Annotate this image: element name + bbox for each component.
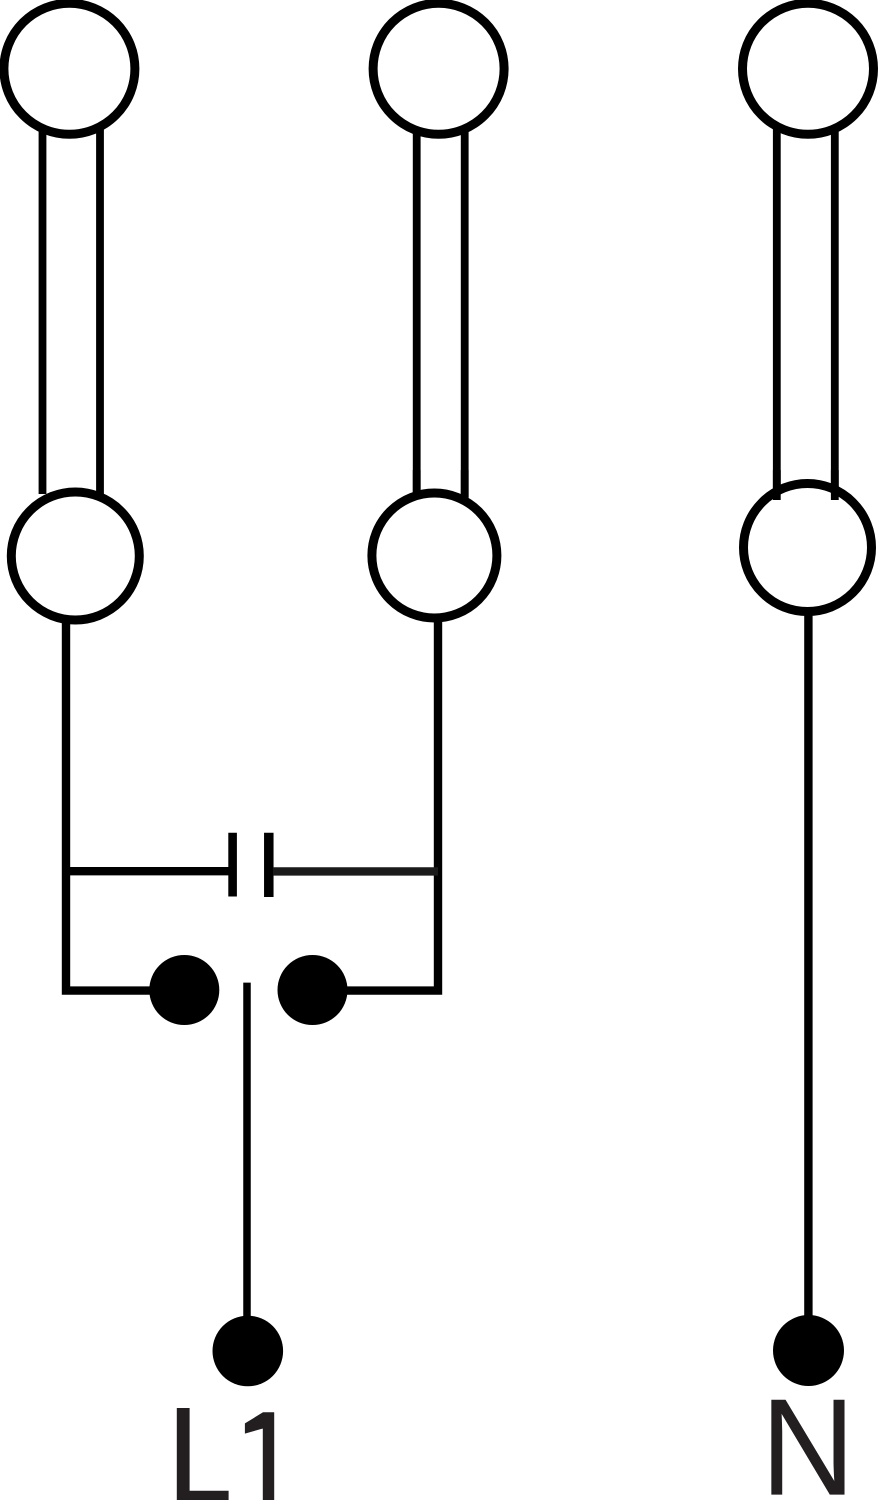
lamp E2 top terminal circle [373, 3, 504, 134]
lamp E2 filament stub right inside bottom circle [461, 470, 469, 499]
capacitor C1 left plate [228, 833, 237, 897]
capacitor C1 right plate [264, 833, 274, 897]
lamp E1 filament line left [39, 129, 47, 494]
wire N: from E3 bottom circle down to terminal N [804, 608, 812, 1351]
lamp E3 filament line right [831, 129, 839, 488]
wire from E1 bottom circle down and corner to left switch contact [66, 616, 184, 991]
lamp E1 filament line right [96, 129, 104, 494]
lamp E2 filament stub left inside bottom circle [413, 470, 421, 498]
svg-text:N: N [761, 1369, 856, 1500]
label L1 (drawn as paths: L stem+foot, 1 flag+stem) [177, 1408, 229, 1500]
switch S1 right contact dot [278, 955, 348, 1025]
capacitor C1 left lead wire [66, 867, 229, 875]
lamp E2 filament line right [461, 129, 469, 497]
lamp E3 filament stub right inside bottom circle [831, 470, 839, 500]
capacitor C1 right lead wire [273, 867, 438, 875]
lamp E3 filament line left [773, 129, 781, 488]
lamp E3 bottom terminal circle [744, 484, 872, 612]
terminal dot L1 [213, 1316, 284, 1387]
lamp E3 filament stub left inside bottom circle [773, 470, 781, 500]
lamp E3 top terminal circle [743, 3, 874, 134]
terminal dot N [773, 1315, 844, 1386]
lamp E2 bottom terminal circle [372, 493, 497, 618]
lamp E1 top terminal circle [4, 3, 135, 134]
lamp E2 filament line left [413, 129, 421, 497]
switch S1 actuator wire down to terminal L1 [243, 983, 251, 1351]
wire from E2 bottom circle down and corner to right switch contact [313, 616, 439, 991]
lamp E1 bottom terminal circle [11, 492, 139, 620]
switch S1 left contact dot [149, 955, 219, 1025]
